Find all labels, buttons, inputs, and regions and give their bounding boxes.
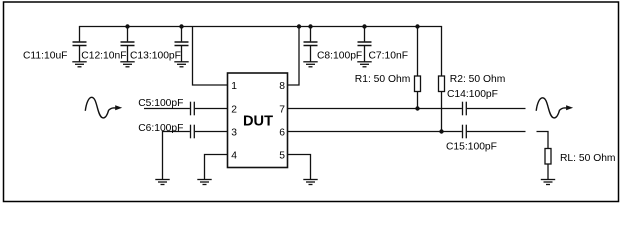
svg-text:R1: 50 Ohm: R1: 50 Ohm (355, 74, 411, 85)
svg-text:C11:10uF: C11:10uF (23, 51, 67, 62)
svg-text:1: 1 (231, 81, 237, 92)
svg-text:6: 6 (279, 128, 285, 139)
junction dot rail/R1 (415, 24, 419, 28)
svg-text:4: 4 (231, 151, 237, 162)
wire: pin 5 to ground (288, 155, 311, 180)
svg-text:C13:100pF: C13:100pF (130, 51, 181, 62)
junction dot rail/C8 (308, 24, 312, 28)
resistor RL (545, 149, 551, 180)
capacitor C15 (463, 125, 467, 139)
op-amp U1: DUT package body (228, 73, 288, 168)
resistor R1 (415, 27, 421, 109)
ground under C11 (72, 62, 86, 67)
svg-text:C15:100pF: C15:100pF (446, 142, 497, 153)
junction dot rail/C7 (362, 24, 366, 28)
junction dot rail/pin8 drop (297, 24, 301, 28)
svg-text:C5:100pF: C5:100pF (138, 98, 183, 109)
svg-text:3: 3 (231, 128, 237, 139)
svg-text:R2: 50 Ohm: R2: 50 Ohm (450, 74, 506, 85)
svg-text:8: 8 (279, 81, 285, 92)
ground under C12 (120, 62, 134, 67)
svg-text:C8:100pF: C8:100pF (317, 51, 362, 62)
capacitor C6 (191, 125, 195, 139)
wire: input to C5 (144, 108, 190, 110)
svg-text:C7:10nF: C7:10nF (369, 51, 409, 62)
junction dot R1/pin7 line (415, 106, 419, 110)
wire: C15 to RL branch (467, 131, 526, 133)
ground under RL (541, 180, 555, 185)
svg-text:C6:100pF: C6:100pF (138, 123, 183, 134)
svg-text:2: 2 (231, 105, 237, 116)
ground under pin 5 (303, 180, 317, 185)
ground under C6 (155, 180, 169, 185)
output sine symbol (536, 98, 559, 118)
capacitor C14 (463, 102, 467, 116)
wire: node to RL (537, 132, 549, 149)
ground under C13 (174, 62, 188, 67)
wire: pin 7 to C14 (288, 108, 462, 110)
input arrow (109, 105, 123, 110)
wire: C6 left side with ground drop (163, 132, 190, 180)
wire: top supply rail (79, 26, 442, 28)
wire: pin 4 to ground (205, 155, 228, 180)
wire: pin 6 to C15 (288, 131, 462, 133)
junction dot rail/C12 (125, 24, 129, 28)
wire: C5 to pin 2 (195, 108, 228, 110)
capacitor C11 (73, 27, 87, 62)
input source sine symbol (85, 97, 108, 118)
svg-text:C12:10nF: C12:10nF (81, 51, 126, 62)
wire: C14 to output (467, 108, 526, 110)
svg-text:7: 7 (279, 105, 285, 116)
ground under C8 (303, 62, 317, 67)
wire: rail drop to pin 8 (288, 27, 300, 86)
junction dot rail/C13 (179, 24, 183, 28)
resistor R2 (439, 27, 445, 132)
svg-text:5: 5 (279, 151, 285, 162)
wire: rail drop to pin 1 (193, 27, 228, 86)
capacitor C8 (304, 27, 318, 62)
svg-text:C14:100pF: C14:100pF (447, 89, 498, 100)
ground under C7 (357, 62, 371, 67)
svg-text:RL: 50 Ohm: RL: 50 Ohm (560, 153, 616, 164)
wire: C6 to pin 3 (195, 131, 228, 133)
svg-text:DUT: DUT (243, 114, 273, 130)
output arrow (560, 105, 574, 110)
capacitor C7 (358, 27, 372, 62)
capacitor C12 (121, 27, 135, 62)
junction dot R2/pin6 line (439, 129, 443, 133)
capacitor C5 (191, 102, 195, 116)
capacitor C13 (175, 27, 189, 62)
ground under pin 4 (197, 180, 211, 185)
